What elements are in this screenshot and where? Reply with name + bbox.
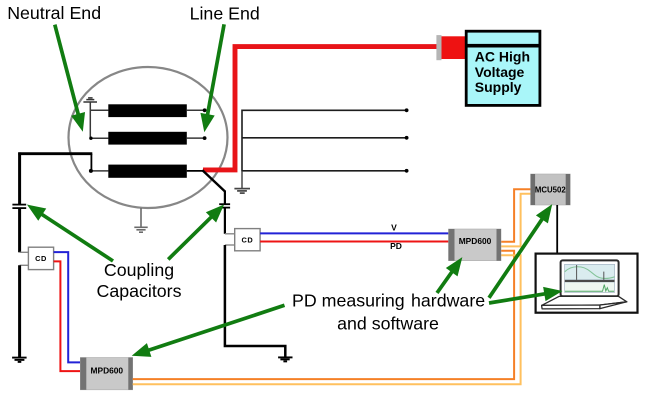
screen divider — [565, 280, 615, 282]
svg-text:Voltage: Voltage — [475, 64, 525, 80]
sine trace — [565, 267, 615, 279]
arrow to laptop — [489, 293, 548, 303]
MCU502 controller — [531, 174, 571, 205]
svg-text:MCU502: MCU502 — [535, 185, 566, 194]
svg-text:Neutral End: Neutral End — [7, 3, 101, 23]
node phase B — [405, 136, 409, 140]
svg-text:PD: PD — [390, 241, 402, 251]
supply connector red — [442, 36, 467, 59]
svg-text:Coupling: Coupling — [104, 260, 174, 280]
ground G5 — [12, 358, 27, 362]
HV red wire — [203, 47, 437, 170]
svg-text:CD: CD — [242, 235, 254, 244]
red wire CD1 to MPD600-1 — [54, 261, 81, 371]
wire CD2 to ground — [225, 245, 285, 357]
ground under tank — [134, 208, 147, 232]
arrow coupling-right — [168, 215, 214, 260]
blue wire CD2 to MPD600-2 — [260, 232, 448, 234]
CD2 stubs — [225, 234, 235, 245]
arrow to MPD600-2 — [437, 269, 454, 293]
laptop screen — [561, 260, 619, 296]
coupling capacitor C1 — [12, 205, 26, 209]
winding W3 — [108, 165, 187, 178]
node line-end W1 — [203, 108, 207, 112]
laptop base — [542, 296, 627, 309]
svg-text:and software: and software — [337, 314, 439, 334]
fibre wire MPD1 to MPD2 (dark orange) — [133, 251, 514, 379]
svg-text:AC High: AC High — [475, 49, 530, 65]
quadripole CD2 — [235, 229, 260, 251]
laptop frame box — [536, 254, 638, 313]
fibre wire MPD1 to MPD2 (light orange) — [133, 255, 521, 384]
line-end black diagonal — [202, 170, 225, 191]
svg-text:PD measuring: PD measuring — [292, 291, 405, 311]
svg-text:Supply: Supply — [475, 79, 522, 95]
winding stubs and neutral bus — [90, 102, 204, 171]
wire C2 to CD2 — [224, 208, 226, 234]
junction neutral bus W2 — [89, 137, 92, 140]
red wire CD2 to MPD600-2 — [260, 241, 448, 243]
MPD600 unit 1 — [80, 358, 132, 390]
fibre wire MPD2 to MCU502 (dark orange) — [501, 189, 531, 242]
node line-end W2 — [203, 136, 207, 140]
svg-text:V: V — [391, 223, 397, 233]
coupling capacitor C2 — [219, 204, 230, 207]
neutral ground (inverted) — [83, 98, 97, 102]
svg-text:CD: CD — [35, 254, 47, 263]
left neutral tap wire — [18, 152, 92, 204]
ground G6 — [278, 357, 292, 361]
MPD600 unit 2 — [449, 229, 502, 261]
three-phase bus — [242, 110, 407, 172]
wire to C2 — [224, 191, 226, 205]
node phase A — [405, 108, 409, 112]
AC high voltage supply box — [466, 31, 540, 105]
fibre wire MPD2 to MCU502 (light orange) — [501, 194, 531, 247]
arrow to MCU502 — [489, 216, 544, 298]
supply connector gray — [436, 35, 441, 60]
junction neutral tap W3 — [89, 169, 93, 173]
pd trace — [565, 285, 614, 292]
arrow neutral-end — [55, 25, 79, 118]
CD1 stubs — [20, 252, 29, 265]
green arrows — [31, 24, 557, 355]
svg-text:Line End: Line End — [190, 4, 260, 24]
wire MCU502 to laptop — [556, 205, 558, 254]
arrow to MPD600-1 — [146, 305, 285, 351]
arrow coupling-left — [39, 213, 113, 262]
ground G3 — [234, 189, 250, 194]
svg-text:MPD600: MPD600 — [459, 236, 492, 246]
winding W2 — [108, 132, 187, 145]
quadripole CD1 — [28, 247, 53, 269]
svg-text:Capacitors: Capacitors — [97, 281, 182, 301]
svg-text:MPD600: MPD600 — [91, 366, 124, 376]
cursors — [576, 265, 578, 280]
wire C1 to CD1 — [18, 208, 21, 252]
node phase C — [405, 169, 409, 173]
arrow line-end — [207, 24, 224, 118]
bus ground stem — [241, 172, 243, 189]
transformer tank circle — [69, 67, 228, 208]
blue wire CD1 to MPD600-1 — [54, 252, 81, 362]
wire CD1 to ground — [18, 265, 21, 357]
winding W1 — [108, 104, 187, 117]
svg-text:hardware: hardware — [411, 291, 485, 311]
